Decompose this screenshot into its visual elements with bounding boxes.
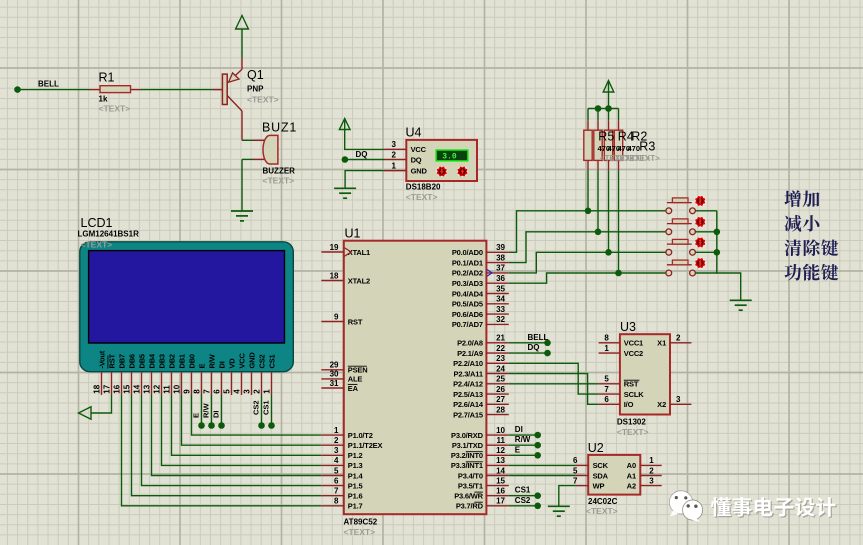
wire LCD RST pin to power	[91, 395, 112, 413]
node CS1 junction dot below LCD	[268, 422, 275, 429]
svg-text:Q1: Q1	[247, 68, 264, 82]
svg-text:P1.2: P1.2	[348, 451, 363, 460]
svg-text:2: 2	[334, 436, 339, 445]
node resistor bus dot R4	[595, 105, 602, 112]
svg-text:P2.2/A10: P2.2/A10	[453, 359, 483, 368]
svg-text:24: 24	[496, 364, 505, 373]
svg-text:DQ: DQ	[356, 150, 368, 159]
svg-text:DQ: DQ	[528, 343, 540, 352]
wire U1 P2.4 to U3 RST	[509, 383, 599, 385]
svg-text:28: 28	[496, 405, 505, 414]
node CS1 junction dot at U1	[534, 492, 541, 499]
svg-text:18: 18	[92, 384, 101, 393]
node BELL junction dot	[14, 86, 21, 93]
wire LCD DB4 to U1 P1.4	[152, 395, 322, 476]
wire LCD DB1 to U1 P1.1	[182, 395, 322, 445]
svg-text:P0.0/AD0: P0.0/AD0	[452, 248, 483, 257]
node key row 2 dot at R4	[595, 229, 602, 236]
resistor R2	[604, 109, 612, 253]
rtc U3 DS1302 body	[620, 334, 670, 414]
svg-text:39: 39	[496, 243, 505, 252]
wire U1 P2.2 to U3 SCLK	[509, 363, 599, 394]
svg-text:17: 17	[496, 497, 505, 506]
svg-text:1: 1	[649, 456, 654, 465]
svg-text:1: 1	[334, 426, 339, 435]
U1 right pin stubs	[486, 252, 508, 505]
push button key 4	[666, 258, 706, 276]
svg-text:E: E	[198, 364, 207, 369]
svg-text:P1.0/T2: P1.0/T2	[348, 431, 373, 440]
svg-text:GND: GND	[248, 352, 257, 369]
svg-text:19: 19	[330, 243, 339, 252]
svg-text:P2.4/A12: P2.4/A12	[453, 380, 483, 389]
svg-text:P1.1/T2EX: P1.1/T2EX	[348, 441, 383, 450]
svg-text:X2: X2	[657, 400, 666, 409]
svg-text:14: 14	[132, 384, 141, 393]
svg-text:22: 22	[496, 344, 505, 353]
wire power bus to resistors	[608, 81, 610, 109]
LCD pin names	[98, 350, 277, 368]
node BELL junction dot at U1	[544, 340, 551, 347]
node resistor bus dot R2	[605, 105, 612, 112]
svg-text:BUZZER: BUZZER	[263, 167, 296, 176]
node DQ junction dot at U1	[544, 350, 551, 357]
U2 left pin names	[593, 461, 609, 490]
svg-text:3: 3	[334, 446, 339, 455]
svg-text:<TEXT>: <TEXT>	[99, 104, 131, 114]
svg-text:36: 36	[496, 274, 505, 283]
U1 left pin stubs	[321, 252, 344, 506]
svg-text:EA: EA	[348, 384, 359, 393]
sensor U4 DS18B20	[385, 140, 478, 181]
power symbol above U4	[339, 119, 350, 130]
mcu U1 AT89C52 body	[344, 241, 487, 515]
svg-text:P3.3/INT1: P3.3/INT1	[451, 461, 483, 470]
wire power to U4 VCC	[345, 119, 385, 149]
svg-text:A1: A1	[627, 471, 637, 480]
svg-text:6: 6	[573, 456, 578, 465]
ground below keys	[730, 300, 752, 310]
svg-text:GND: GND	[411, 166, 428, 175]
wire key 3 to bus	[695, 251, 716, 253]
wire LCD DB5 to U1 P1.5	[142, 395, 322, 486]
svg-text:10: 10	[496, 426, 505, 435]
svg-text:BELL: BELL	[38, 80, 59, 89]
svg-text:P1.4: P1.4	[348, 471, 364, 480]
U4 temperature display	[436, 150, 468, 162]
svg-text:26: 26	[496, 385, 505, 394]
labels resistor network	[598, 130, 661, 163]
svg-text:5: 5	[604, 375, 609, 384]
label decrease key	[784, 215, 819, 232]
display LCD1 screen	[89, 251, 285, 343]
resistor R1	[90, 86, 142, 93]
svg-text:A2: A2	[627, 481, 637, 490]
wire U1 P0.3 to key row 4	[509, 273, 666, 283]
resistor R4	[594, 109, 602, 232]
display LCD1 body	[80, 242, 293, 372]
svg-text:<TEXT>: <TEXT>	[406, 192, 438, 202]
svg-text:DS1302: DS1302	[617, 418, 646, 427]
ground below U2 WP	[548, 506, 570, 516]
svg-text:ALE: ALE	[348, 375, 363, 384]
svg-text:DB0: DB0	[188, 354, 197, 368]
node CS2 junction dot at U1	[534, 503, 541, 510]
svg-text:6: 6	[334, 476, 339, 485]
U1 left pin numbers	[330, 243, 339, 506]
svg-text:BELL: BELL	[528, 333, 549, 342]
svg-text:3: 3	[676, 395, 681, 404]
svg-text:P2.5/A13: P2.5/A13	[453, 390, 483, 399]
svg-text:-Vout: -Vout	[98, 350, 107, 368]
svg-text:15: 15	[496, 476, 505, 485]
svg-text:P2.7/A15: P2.7/A15	[453, 410, 483, 419]
wire U4 GND to ground	[345, 171, 384, 188]
svg-text:BUZ1: BUZ1	[262, 121, 297, 135]
U1 right pin numbers	[496, 243, 505, 506]
svg-text:U2: U2	[588, 441, 604, 455]
svg-text:3: 3	[392, 140, 397, 149]
svg-text:24C02C: 24C02C	[588, 497, 618, 506]
svg-text:25: 25	[496, 375, 505, 384]
svg-text:<TEXT>: <TEXT>	[586, 506, 618, 516]
svg-text:35: 35	[496, 284, 505, 293]
wire LCD CS1 net	[271, 395, 273, 426]
svg-text:P3.2/INT0: P3.2/INT0	[451, 451, 483, 460]
U1 right pin names	[451, 248, 484, 511]
wire U1 P0.2 to key row 3	[509, 252, 666, 273]
svg-text:XTAL2: XTAL2	[348, 276, 370, 285]
wire BUZ1 to ground	[241, 159, 243, 211]
svg-text:RST: RST	[624, 380, 639, 389]
node CS2 junction dot below LCD	[258, 422, 265, 429]
svg-text:<TEXT>: <TEXT>	[617, 427, 649, 437]
svg-text:CS1: CS1	[261, 400, 270, 415]
node E junction dot at U1	[534, 452, 541, 459]
svg-text:P0.2/AD2: P0.2/AD2	[452, 269, 483, 278]
eeprom U2 24C02C body	[588, 455, 640, 495]
svg-text:11: 11	[162, 385, 171, 394]
wire U1 P0.0 to key row 1	[509, 211, 666, 253]
svg-text:DB1: DB1	[178, 354, 187, 368]
svg-text:R1: R1	[99, 71, 115, 85]
svg-text:38: 38	[496, 253, 505, 262]
label function key	[784, 264, 838, 281]
push button key 1	[666, 196, 706, 214]
svg-text:U3: U3	[620, 320, 636, 334]
svg-text:P3.7/RD: P3.7/RD	[456, 502, 484, 511]
svg-text:7: 7	[202, 389, 211, 394]
svg-text:27: 27	[496, 395, 505, 404]
svg-text:9: 9	[182, 389, 191, 394]
svg-text:P1.6: P1.6	[348, 492, 363, 501]
svg-text:R3: R3	[639, 140, 655, 154]
svg-text:E: E	[515, 445, 521, 454]
svg-text:DB4: DB4	[148, 353, 157, 368]
svg-text:1: 1	[392, 161, 397, 170]
U2 left pin numbers	[573, 456, 578, 485]
svg-text:7: 7	[573, 476, 578, 485]
power symbol above Q1	[236, 16, 249, 30]
svg-text:E: E	[191, 413, 200, 418]
wire LCD R/W net	[211, 395, 213, 426]
svg-text:CS1: CS1	[268, 354, 277, 368]
svg-text:P0.1/AD1: P0.1/AD1	[452, 258, 483, 267]
svg-text:SDA: SDA	[593, 471, 609, 480]
svg-text:AT89C52: AT89C52	[344, 518, 378, 527]
ground below U4	[334, 188, 356, 198]
svg-text:3.0: 3.0	[442, 153, 457, 162]
U3 right pin numbers	[676, 334, 681, 405]
svg-text:5: 5	[334, 466, 339, 475]
U2 right pin numbers	[649, 456, 654, 485]
svg-text:6: 6	[604, 395, 609, 404]
svg-text:8: 8	[604, 334, 609, 343]
svg-text:P3.4/T0: P3.4/T0	[458, 471, 483, 480]
svg-text:P0.4/AD4: P0.4/AD4	[452, 289, 484, 298]
svg-text:15: 15	[122, 384, 131, 393]
svg-text:33: 33	[496, 305, 505, 314]
svg-text:RST: RST	[108, 353, 117, 368]
pin names U4	[411, 145, 428, 175]
wire U1 P2.3 to U3 I/O	[509, 374, 599, 405]
svg-text:32: 32	[496, 315, 505, 324]
svg-text:WP: WP	[593, 481, 605, 490]
svg-text:P1.7: P1.7	[348, 502, 363, 511]
wire DQ net at U1 P2.1	[509, 352, 545, 354]
power symbol left of LCD pin 17	[79, 407, 92, 420]
U3 right pin names	[657, 339, 666, 410]
svg-text:A0: A0	[627, 461, 637, 470]
svg-text:7: 7	[604, 385, 609, 394]
node R/W junction dot below LCD	[208, 422, 215, 429]
svg-text:P2.1/A9: P2.1/A9	[457, 349, 483, 358]
U3 left pin numbers	[604, 334, 609, 405]
U2 left pin stubs	[575, 465, 588, 485]
svg-text:DI: DI	[218, 361, 227, 368]
svg-text:7: 7	[334, 487, 339, 496]
svg-text:31: 31	[330, 379, 339, 388]
wire R1 to Q1 base	[141, 89, 213, 91]
svg-text:P3.1/TXD: P3.1/TXD	[452, 441, 484, 450]
wire LCD E net	[201, 395, 203, 426]
svg-text:37: 37	[496, 264, 505, 273]
U4 down button	[436, 166, 447, 177]
U2 right pin names	[627, 461, 637, 490]
svg-text:DB2: DB2	[168, 354, 177, 368]
svg-text:RST: RST	[348, 317, 363, 326]
svg-text:2: 2	[676, 334, 681, 343]
wire LCD DB2 to U1 P1.2	[172, 395, 322, 455]
svg-text:DI: DI	[515, 425, 523, 434]
svg-text:2: 2	[392, 150, 397, 159]
wire key 1 to bus	[695, 210, 716, 212]
svg-text:R/W: R/W	[208, 353, 217, 368]
transistor Q1 PNP	[213, 58, 242, 140]
svg-text:<TEXT>: <TEXT>	[630, 154, 660, 163]
svg-text:R5: R5	[598, 130, 614, 144]
svg-text:18: 18	[330, 271, 339, 280]
svg-text:VCC2: VCC2	[624, 349, 643, 358]
svg-text:P0.3/AD3: P0.3/AD3	[452, 279, 483, 288]
svg-text:P3.6/WR: P3.6/WR	[454, 492, 483, 501]
svg-text:P0.6/AD6: P0.6/AD6	[452, 310, 483, 319]
resistor R3	[614, 109, 622, 274]
node key row 1 dot at R5	[585, 208, 592, 215]
svg-text:8: 8	[192, 389, 201, 394]
svg-text:4: 4	[232, 389, 241, 394]
wire DI net at U1 P3.0	[509, 434, 535, 436]
watermark wechat logo	[669, 491, 702, 523]
wire CS1 net at U1 P3.6	[509, 495, 535, 497]
wire key 4 to bus	[695, 272, 716, 274]
label increase key	[784, 190, 819, 207]
svg-text:LGM12641BS1R: LGM12641BS1R	[78, 230, 140, 239]
svg-text:12: 12	[496, 446, 505, 455]
wire LCD DB7 to U1 P1.7	[122, 395, 322, 506]
svg-text:5: 5	[222, 389, 231, 394]
svg-text:P1.3: P1.3	[348, 461, 363, 470]
svg-text:1k: 1k	[99, 95, 108, 104]
wire R/W net at U1 P3.1	[509, 444, 535, 446]
wire BELL to R1	[20, 89, 90, 91]
svg-text:16: 16	[496, 487, 505, 496]
wire Q1 emitter to power	[241, 29, 243, 58]
svg-text:CS2: CS2	[251, 400, 260, 415]
svg-text:2: 2	[649, 466, 654, 475]
svg-text:23: 23	[496, 354, 505, 363]
node E junction dot below LCD	[198, 422, 205, 429]
wire LCD DB6 to U1 P1.6	[132, 395, 322, 496]
svg-text:11: 11	[497, 436, 506, 445]
svg-text:P0.5/AD5: P0.5/AD5	[452, 300, 483, 309]
node key row 4 dot at R3	[615, 270, 622, 277]
power symbol above resistor network	[603, 81, 614, 93]
wire E net at U1 P3.2	[509, 454, 535, 456]
svg-text:VCC: VCC	[238, 352, 247, 368]
svg-text:R/W: R/W	[201, 403, 210, 419]
U4 up button	[457, 166, 468, 177]
wire resistor top bus	[588, 108, 619, 110]
svg-text:21: 21	[496, 334, 505, 343]
svg-text:DS18B20: DS18B20	[406, 183, 441, 192]
svg-text:CS1: CS1	[515, 486, 531, 495]
svg-text:13: 13	[142, 384, 151, 393]
svg-text:X1: X1	[657, 339, 666, 348]
svg-text:29: 29	[330, 361, 339, 370]
svg-text:1: 1	[262, 389, 271, 394]
svg-text:CS2: CS2	[258, 354, 267, 368]
node DQ junction dot at U4	[342, 156, 349, 163]
ground below BUZ1	[231, 211, 253, 221]
svg-text:VCC1: VCC1	[624, 339, 643, 348]
wire U1 P3.3 to U2 SCK	[509, 464, 576, 466]
svg-text:12: 12	[152, 384, 161, 393]
U1 left pin names	[348, 248, 383, 511]
wire LCD DB0 to U1 P1.0	[192, 395, 322, 435]
push button key 2	[666, 217, 706, 235]
svg-text:2: 2	[252, 389, 261, 394]
svg-text:16: 16	[112, 384, 121, 393]
svg-text:DI: DI	[211, 411, 220, 419]
svg-text:P1.5: P1.5	[348, 481, 363, 490]
svg-text:P0.7/AD7: P0.7/AD7	[452, 320, 483, 329]
svg-text:14: 14	[496, 466, 505, 475]
svg-text:6: 6	[212, 389, 221, 394]
svg-text:P3.5/T1: P3.5/T1	[458, 481, 483, 490]
wire CS2 net at U1 P3.7	[509, 505, 535, 507]
LCD pin stubs	[102, 372, 272, 395]
svg-text:4: 4	[334, 456, 339, 465]
svg-text:13: 13	[496, 456, 505, 465]
svg-text:DB5: DB5	[138, 354, 147, 368]
U3 right pin stubs	[670, 343, 691, 405]
svg-text:U4: U4	[406, 126, 422, 140]
node DI junction dot below LCD	[218, 422, 225, 429]
svg-text:8: 8	[334, 497, 339, 506]
wire LCD DI net	[221, 395, 223, 426]
svg-text:P2.0/A8: P2.0/A8	[457, 339, 483, 348]
node R/W junction dot at U1	[534, 442, 541, 449]
resistor R5	[584, 109, 592, 211]
wire key 2 to bus	[695, 231, 716, 233]
node key row 3 dot at R2	[605, 249, 612, 256]
label clear key	[784, 239, 838, 256]
svg-text:PNP: PNP	[247, 85, 264, 94]
U3 left pin stubs	[599, 343, 620, 405]
svg-text:<TEXT>: <TEXT>	[263, 176, 295, 186]
wire DQ to U4	[348, 159, 385, 161]
buzzer BUZ1	[242, 135, 278, 164]
svg-text:1: 1	[604, 344, 609, 353]
svg-text:30: 30	[330, 370, 339, 379]
wire key bus vertical	[717, 211, 741, 300]
svg-text:<TEXT>: <TEXT>	[81, 240, 113, 250]
svg-text:P3.0/RXD: P3.0/RXD	[451, 431, 484, 440]
svg-text:3: 3	[242, 389, 251, 394]
svg-text:DB6: DB6	[128, 354, 137, 368]
svg-text:P2.3/A11: P2.3/A11	[454, 369, 483, 378]
svg-text:VCC: VCC	[411, 145, 427, 154]
wire BELL net at U1 P2.0	[509, 342, 545, 344]
svg-text:DQ: DQ	[411, 155, 422, 164]
svg-text:VD: VD	[228, 358, 237, 369]
pin numbers U4	[392, 140, 397, 170]
svg-text:10: 10	[172, 384, 181, 393]
svg-text:5: 5	[573, 466, 578, 475]
wire U2 WP to ground	[559, 486, 576, 507]
svg-text:34: 34	[496, 295, 505, 304]
svg-text:P2.6/A14: P2.6/A14	[453, 400, 484, 409]
svg-text:U1: U1	[345, 227, 361, 241]
svg-text:DB7: DB7	[118, 354, 127, 368]
wire U1 P0.1 to key row 2	[509, 232, 666, 263]
svg-text:LCD1: LCD1	[81, 216, 113, 230]
svg-text:9: 9	[334, 312, 339, 321]
push button key 3	[666, 237, 706, 255]
node key bus dot row 2	[714, 229, 721, 236]
svg-text:CS2: CS2	[515, 496, 531, 505]
watermark text	[711, 497, 837, 518]
svg-text:3: 3	[649, 476, 654, 485]
svg-text:<TEXT>: <TEXT>	[247, 95, 279, 105]
node DI junction dot at U1	[534, 432, 541, 439]
U3 left pin names	[624, 339, 644, 410]
svg-text:DB3: DB3	[158, 354, 167, 368]
U1 pin 37 marker	[487, 270, 492, 277]
svg-text:R/W: R/W	[515, 435, 531, 444]
svg-text:SCK: SCK	[593, 461, 609, 470]
